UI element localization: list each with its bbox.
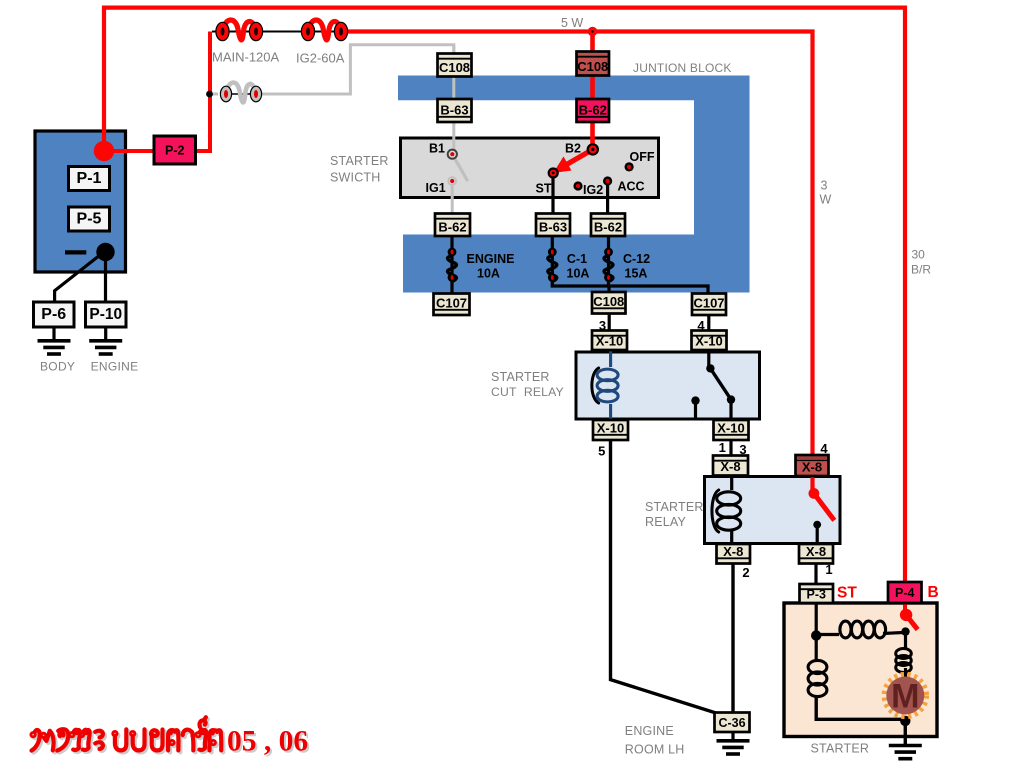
svg-text:B-62: B-62 (594, 219, 622, 234)
svg-text:P-10: P-10 (89, 306, 122, 323)
svg-text:RELAY: RELAY (645, 515, 687, 529)
svg-text:SWICTH: SWICTH (330, 171, 381, 185)
svg-text:IG2-60A: IG2-60A (296, 51, 345, 66)
svg-text:P-2: P-2 (165, 144, 185, 158)
svg-text:STARTER: STARTER (645, 500, 704, 514)
svg-text:X-10: X-10 (596, 333, 623, 348)
svg-text:B/R: B/R (911, 263, 931, 277)
svg-text:X-10: X-10 (597, 420, 624, 435)
svg-text:M: M (891, 678, 919, 716)
svg-text:ENGINE: ENGINE (91, 360, 139, 374)
svg-text:P-4: P-4 (895, 586, 915, 600)
svg-text:C-36: C-36 (718, 716, 745, 730)
svg-text:ST: ST (536, 182, 552, 196)
svg-text:C108: C108 (577, 59, 608, 74)
svg-text:3: 3 (599, 318, 606, 333)
svg-text:C108: C108 (439, 60, 470, 75)
svg-text:P-3: P-3 (807, 587, 827, 601)
svg-text:4: 4 (697, 318, 705, 333)
svg-text:IG2: IG2 (583, 183, 603, 197)
svg-text:5: 5 (598, 444, 605, 459)
svg-text:X-8: X-8 (806, 544, 826, 559)
svg-text:P-5: P-5 (77, 211, 102, 228)
svg-text:B2: B2 (565, 142, 581, 156)
svg-text:P-1: P-1 (77, 170, 102, 187)
svg-text:X-8: X-8 (723, 544, 743, 559)
svg-text:X-10: X-10 (695, 333, 722, 348)
svg-text:STARTER: STARTER (811, 742, 870, 756)
svg-text:C108: C108 (593, 294, 624, 309)
svg-text:STARTER: STARTER (330, 154, 389, 168)
svg-text:ACC: ACC (618, 180, 645, 194)
svg-text:3: 3 (821, 179, 828, 193)
svg-text:STARTER: STARTER (491, 370, 550, 384)
svg-text:ENGINE: ENGINE (467, 252, 515, 266)
svg-text:05 , 06: 05 , 06 (227, 726, 308, 758)
svg-text:ENGINE: ENGINE (625, 724, 674, 738)
svg-text:W: W (820, 193, 832, 207)
svg-text:B-63: B-63 (539, 219, 567, 234)
svg-text:ST: ST (837, 585, 857, 602)
svg-text:15A: 15A (625, 267, 648, 281)
svg-text:X-8: X-8 (720, 459, 740, 474)
svg-text:10A: 10A (477, 267, 500, 281)
svg-text:10A: 10A (567, 267, 590, 281)
svg-text:X-8: X-8 (802, 459, 822, 474)
svg-text:3: 3 (739, 442, 746, 457)
svg-text:OFF: OFF (630, 150, 655, 164)
svg-text:30: 30 (912, 248, 926, 262)
svg-text:X-10: X-10 (717, 420, 744, 435)
svg-text:C-12: C-12 (623, 252, 650, 266)
svg-text:ROOM LH: ROOM LH (625, 743, 685, 757)
svg-text:C-1: C-1 (567, 252, 587, 266)
svg-text:C107: C107 (436, 295, 467, 310)
svg-text:BODY: BODY (40, 360, 75, 374)
svg-text:CUT RELAY: CUT RELAY (491, 385, 564, 399)
svg-text:2: 2 (742, 565, 749, 580)
svg-text:B-63: B-63 (440, 102, 468, 117)
svg-text:1: 1 (825, 562, 832, 577)
svg-text:4: 4 (820, 441, 828, 456)
svg-text:B-62: B-62 (579, 102, 607, 117)
svg-text:B-62: B-62 (438, 219, 466, 234)
svg-text:IG1: IG1 (426, 181, 446, 195)
svg-text:1: 1 (719, 440, 726, 455)
svg-text:5 W: 5 W (561, 16, 583, 30)
svg-text:MAIN-120A: MAIN-120A (212, 50, 280, 65)
svg-text:C107: C107 (693, 295, 724, 310)
svg-text:B: B (928, 584, 939, 601)
svg-text:P-6: P-6 (41, 306, 66, 323)
svg-text:B1: B1 (429, 142, 445, 156)
svg-text:JUNTION BLOCK: JUNTION BLOCK (633, 61, 732, 75)
